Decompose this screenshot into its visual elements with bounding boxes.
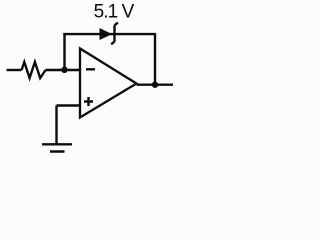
- label plus non-inverting input: [84, 97, 93, 106]
- wire resistor to inverting input: [46, 69, 80, 71]
- op-amp U1: [80, 49, 137, 118]
- wire feedback right vertical: [154, 33, 156, 85]
- svg-text:5.1 V: 5.1 V: [94, 1, 135, 22]
- node inverting input junction: [61, 67, 67, 73]
- ground: [42, 106, 72, 152]
- node output junction: [152, 82, 158, 88]
- label minus inverting input: [86, 68, 95, 70]
- zener diode D1 cathode bar: [111, 23, 118, 45]
- wire input left segment: [7, 69, 22, 71]
- wire feedback left vertical: [63, 33, 65, 70]
- zener diode D1 anode triangle: [100, 28, 113, 40]
- wire non-inverting input: [57, 104, 81, 106]
- resistor R1: [22, 62, 46, 78]
- wire feedback top: [63, 33, 155, 35]
- wire output: [137, 83, 174, 85]
